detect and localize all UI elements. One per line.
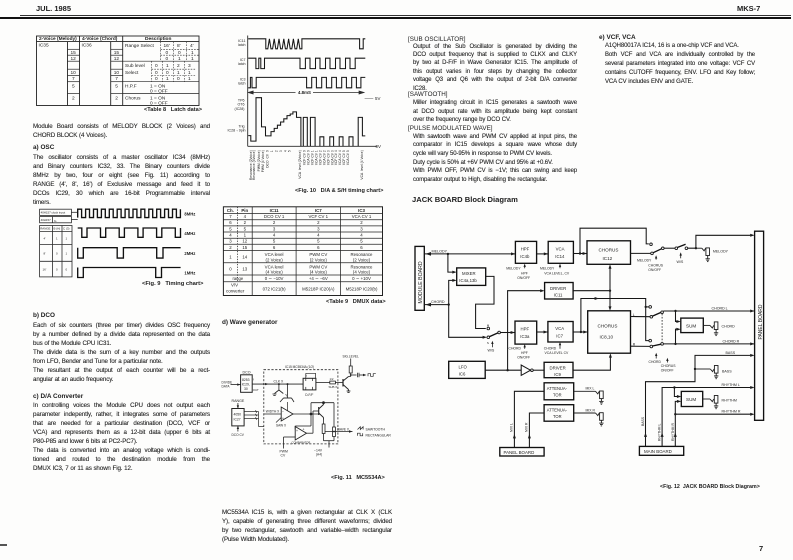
svg-text:VCA: VCA: [556, 247, 565, 252]
svg-text:RHYTHM R: RHYTHM R: [671, 423, 675, 441]
wire VCA IC7 out / node bypass: [573, 331, 588, 333]
switch S5 W/S melody: [675, 244, 688, 264]
waveform 4MHz: [78, 228, 181, 237]
svg-text:BASS: BASS: [641, 416, 645, 426]
wire to SUM2 top: [674, 388, 678, 397]
CHORUS IC8,10: [588, 311, 631, 353]
HPF IC4b: [515, 241, 536, 263]
waveform 1MHz: [78, 268, 181, 278]
waveform 8MHz: [78, 209, 181, 277]
wire into HPF IC3a: [500, 332, 515, 334]
svg-text:CHORD: CHORD: [509, 347, 522, 351]
svg-text:RHYTHM L: RHYTHM L: [658, 424, 662, 441]
PWM CV input: [280, 437, 296, 458]
svg-text:IC8,10: IC8,10: [600, 335, 614, 340]
wire chord to W/S switch: [449, 305, 484, 338]
PANEL BOARD bottom: [500, 448, 544, 457]
wire chorus R out: [631, 345, 651, 347]
jack CHORD: [703, 322, 718, 336]
wire IC4b to VCA IC14: [537, 253, 549, 255]
wire to W/S switch: [664, 247, 675, 249]
svg-text:CHORD R: CHORD R: [723, 339, 740, 343]
svg-text:CHORUS: CHORUS: [599, 247, 619, 252]
svg-text:SUM: SUM: [686, 324, 696, 329]
SIG.LEVEL input: [343, 354, 360, 376]
comparator: [292, 427, 311, 445]
svg-text:IC3a: IC3a: [520, 334, 530, 339]
svg-text:W/S: W/S: [677, 260, 684, 264]
DRIVER IC11: [545, 283, 574, 300]
wire chord: [424, 304, 448, 306]
svg-text:RHYTHM L: RHYTHM L: [722, 383, 740, 387]
ATTENUATOR 2: [544, 405, 574, 422]
wire MIX L riser: [514, 391, 544, 447]
waveform 2MHz: [78, 248, 181, 258]
svg-text:MIX L: MIX L: [586, 387, 595, 391]
svg-text:CHORUS: CHORUS: [598, 324, 618, 329]
wire driver IC9 to chorus: [573, 357, 610, 371]
wire BASS riser: [646, 355, 751, 446]
transistor Q saw reset: [280, 383, 294, 402]
4.8mS arrow: [248, 91, 364, 94]
svg-text:IC6: IC6: [459, 371, 466, 376]
op-amp miller integrator: [266, 402, 293, 428]
VCA IC7: [548, 322, 573, 343]
svg-text:ON/OFF: ON/OFF: [661, 368, 674, 372]
saw output wire: [293, 413, 320, 430]
svg-text:TOR: TOR: [553, 414, 562, 419]
jack MELODY: [696, 248, 710, 262]
labels chord chorus on/off: [649, 353, 677, 373]
mixer U-IC4a,13b: [457, 268, 486, 286]
digital waveform IC7: [248, 58, 365, 68]
svg-text:PANEL BOARD: PANEL BOARD: [504, 450, 535, 455]
switch S3 chord chorus R: [649, 314, 663, 348]
PANEL BOARD right: [755, 231, 764, 420]
svg-text:HPF: HPF: [521, 272, 528, 276]
svg-text:DRIVER: DRIVER: [550, 365, 566, 370]
wire CLK X: [252, 380, 303, 386]
svg-text:IC4b: IC4b: [520, 254, 530, 259]
jack MIX R: [574, 413, 604, 426]
digital waveform IC11: [248, 39, 365, 88]
jack MIX L: [574, 391, 604, 404]
switch S1 chord/mix: [487, 324, 501, 353]
control melody vca level cv: [540, 264, 570, 276]
svg-text:IC7: IC7: [556, 333, 563, 338]
HPF IC3a: [515, 321, 537, 344]
svg-text:IC11: IC11: [554, 293, 563, 298]
svg-text:MIX R: MIX R: [524, 422, 528, 432]
top rail inside IC15: [311, 402, 334, 427]
svg-text:ON/OFF: ON/OFF: [517, 276, 530, 280]
svg-text:CHORD: CHORD: [649, 360, 662, 364]
svg-text:BASS: BASS: [726, 351, 736, 355]
wire LFO out: [485, 369, 521, 371]
svg-text:VCA LEVEL, CV: VCA LEVEL, CV: [544, 272, 570, 276]
jack RHYTHM: [703, 396, 719, 409]
svg-text:ON/OFF: ON/OFF: [648, 268, 661, 272]
comparator output wire: [307, 411, 319, 433]
control melody hpf on/off: [506, 264, 530, 281]
svg-text:MIX R: MIX R: [586, 408, 596, 412]
wire chord bypass: [581, 299, 649, 341]
svg-text:ATTENUA-: ATTENUA-: [547, 386, 568, 391]
svg-text:W/S: W/S: [488, 349, 495, 353]
svg-text:IC4a,13b: IC4a,13b: [459, 278, 477, 283]
svg-text:IC9: IC9: [554, 372, 561, 377]
staircase S/H waveform: [248, 98, 365, 147]
wire IC3a to VCA IC7: [537, 331, 548, 333]
svg-text:TOR: TOR: [553, 393, 562, 398]
page number: [759, 544, 763, 553]
5V / 0V: [365, 97, 374, 99]
VCA IC14: [548, 241, 573, 263]
sub oscillator output: [350, 373, 376, 377]
output legend rectangular: [358, 433, 392, 437]
svg-text:HPF: HPF: [521, 351, 528, 355]
IC15 dashed box: [264, 365, 338, 444]
DRIVER IC9: [544, 362, 573, 377]
wires 4050 to opamp: [244, 410, 281, 426]
svg-text:IC14: IC14: [555, 254, 565, 259]
transistor Q3 sub out: [343, 377, 350, 393]
wire RHYTHM L riser: [662, 388, 750, 447]
svg-text:IC12: IC12: [603, 256, 613, 261]
svg-text:CHORD: CHORD: [722, 325, 736, 329]
switch S4 melody chorus: [650, 243, 664, 255]
wire melody bypass: [580, 228, 649, 253]
svg-text:BASS: BASS: [722, 370, 732, 374]
svg-text:S: S: [487, 341, 489, 345]
switch S2 chord chorus L: [649, 306, 663, 319]
svg-text:VCA: VCA: [555, 326, 564, 331]
svg-text:VCA LEVEL CV: VCA LEVEL CV: [545, 351, 570, 355]
axis: [247, 36, 249, 147]
DCO IC29,30: [241, 370, 259, 392]
svg-text:L: L: [633, 313, 635, 317]
divide data input: [222, 380, 241, 388]
wire chorus L out: [631, 316, 651, 318]
labels melody chorus on/off: [637, 255, 664, 272]
wire VCA IC14 to CHORUS IC12 / node bypass: [573, 253, 587, 255]
wire LFO to driver IC11: [508, 291, 542, 371]
svg-text:MELODY: MELODY: [637, 259, 652, 263]
svg-text:ON/OFF: ON/OFF: [517, 356, 530, 360]
svg-text:RHYTHM R: RHYTHM R: [722, 410, 741, 414]
inverter U1: [521, 365, 544, 375]
wire to SUM1 top: [676, 311, 678, 322]
output legend sawtooth: [358, 427, 386, 432]
control chord vca level cv: [544, 342, 569, 355]
svg-text:LFO: LFO: [459, 364, 468, 369]
wire driver IC11 to chorus IC12 and IC8,10: [573, 268, 610, 308]
resistor R1: [322, 420, 325, 441]
SUM2: [681, 391, 702, 406]
wire melody to panel: [688, 235, 751, 248]
CHORUS IC12: [587, 241, 631, 264]
wire CHORD L to panel: [663, 310, 754, 312]
-14V rail: [314, 441, 334, 457]
output wire WAVE X: [325, 427, 353, 432]
svg-text:HPF: HPF: [521, 326, 530, 331]
wire CHORD R to panel: [663, 343, 754, 345]
wire MIX R riser: [529, 413, 544, 448]
module board: [415, 246, 424, 310]
LFO IC6: [449, 361, 486, 378]
svg-text:PANEL BOARD: PANEL BOARD: [758, 304, 764, 339]
svg-text:CHORD: CHORD: [544, 347, 557, 351]
svg-text:CHORD: CHORD: [431, 300, 445, 304]
svg-text:DRIVER: DRIVER: [550, 286, 566, 291]
wire melody to mixer: [448, 254, 454, 272]
svg-text:MIXER: MIXER: [462, 271, 476, 276]
svg-text:SUM: SUM: [686, 397, 696, 402]
digital waveform IC3: [248, 77, 365, 87]
svg-text:MELODY: MELODY: [713, 250, 729, 254]
svg-text:MELODY: MELODY: [540, 267, 555, 271]
jack BASS: [695, 366, 718, 379]
D-FF: [303, 373, 316, 397]
ATTENUATOR 1: [544, 383, 574, 400]
resistor R2: [333, 427, 336, 441]
control chord hpf on/off: [509, 344, 531, 360]
wire RHYTHM R riser: [675, 401, 750, 446]
RANGE / 4050 IC27: [232, 399, 245, 437]
svg-text:MELODY: MELODY: [432, 249, 448, 253]
node CLK-Y divider: [273, 383, 289, 397]
svg-text:MELODY: MELODY: [506, 267, 521, 271]
MAIN BOARD: [639, 446, 683, 455]
svg-text:MAIN BOARD: MAIN BOARD: [644, 449, 672, 454]
transistor Q2 output: [319, 403, 324, 420]
svg-text:CHORD L: CHORD L: [712, 306, 728, 310]
header: [36, 4, 71, 13]
svg-text:RHYTHM: RHYTHM: [722, 398, 737, 402]
wire melody: [424, 253, 515, 255]
rotated channel labels: [249, 150, 364, 180]
wire to SUM1 bottom: [676, 329, 678, 344]
wire D-FF to resistor R3: [316, 377, 343, 389]
svg-text:ATTENUA-: ATTENUA-: [547, 408, 568, 413]
svg-text:MIX L: MIX L: [509, 423, 513, 432]
SUM1: [681, 318, 704, 333]
svg-text:MODULE BOARD: MODULE BOARD: [418, 261, 424, 303]
svg-text:HPF: HPF: [521, 247, 530, 252]
wire mixer out: [476, 276, 494, 328]
wire chord to mixer: [449, 280, 454, 304]
wire chorus IC12 out: [631, 252, 651, 254]
